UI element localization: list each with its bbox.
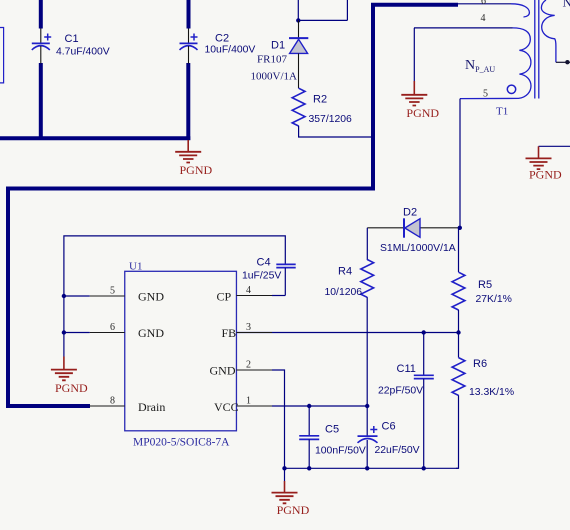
- wire: D1 cathode lead: [298, 20, 300, 39]
- wire: VCC line pin1 to C6: [272, 405, 367, 407]
- pin 4 CP: [236, 295, 272, 297]
- capacitor C5: [299, 406, 366, 468]
- svg-text:22pF/50V: 22pF/50V: [378, 386, 423, 397]
- wire: R6 bottom to gnd rail: [456, 395, 459, 468]
- ground PGND (transformer pin 4): [401, 28, 439, 120]
- svg-text:13.3K/1%: 13.3K/1%: [469, 387, 514, 398]
- svg-text:10/1206: 10/1206: [325, 287, 363, 298]
- svg-text:GND: GND: [138, 290, 164, 304]
- pin 3 FB: [236, 332, 272, 334]
- junction (FB/C11): [422, 330, 426, 334]
- svg-text:4: 4: [246, 285, 251, 296]
- transformer T1: [414, 0, 570, 118]
- wire: R2 bottom to drain bus: [299, 126, 372, 137]
- ground PGND (right, secondary side): [526, 146, 570, 181]
- wire: pin 5 to D2 node: [459, 99, 461, 228]
- pin 5 GND: [90, 295, 125, 297]
- wire thick: bottom rail of bulk caps: [0, 136, 190, 140]
- svg-text:8: 8: [110, 396, 115, 407]
- svg-text:GND: GND: [210, 364, 236, 378]
- secondary winding (partial): [541, 0, 556, 62]
- aux winding N_P_AU: [460, 28, 531, 99]
- capacitor C4: [242, 257, 296, 296]
- wire: R4 bottom to VCC rail: [366, 297, 368, 406]
- svg-text:C1: C1: [65, 33, 79, 45]
- wire: FB net: [236, 332, 458, 334]
- svg-text:D1: D1: [271, 39, 285, 51]
- wire: D1 top net to drain bus: [298, 0, 347, 20]
- wire: pin 6 stub: [458, 3, 511, 5]
- junction (pin6/left vertical): [62, 330, 66, 334]
- svg-text:GND: GND: [138, 326, 164, 340]
- junction (D2 anode / pin5 / R5): [458, 226, 462, 230]
- svg-text:C2: C2: [215, 33, 229, 45]
- svg-text:27K/1%: 27K/1%: [476, 294, 512, 305]
- wire: pin2 GND down to rail: [272, 370, 285, 468]
- resistor R2: [292, 88, 352, 126]
- svg-text:4.7uF/400V: 4.7uF/400V: [56, 46, 110, 57]
- svg-text:R6: R6: [473, 358, 487, 370]
- pin 6 GND: [90, 332, 125, 334]
- svg-text:PGND: PGND: [277, 503, 310, 517]
- svg-text:Drain: Drain: [138, 400, 165, 414]
- svg-text:C11: C11: [397, 363, 416, 375]
- svg-text:R4: R4: [338, 266, 352, 278]
- junction (rail/C11): [422, 466, 426, 470]
- svg-text:PGND: PGND: [180, 163, 213, 177]
- svg-text:T1: T1: [496, 106, 508, 118]
- svg-text:6: 6: [481, 0, 486, 7]
- junction (VCC/C5): [307, 404, 311, 408]
- wire: D2 horizontal: [367, 227, 460, 229]
- resistor R6: [452, 333, 514, 398]
- svg-text:1uF/25V: 1uF/25V: [242, 271, 281, 282]
- svg-text:5: 5: [483, 89, 488, 100]
- junction (VCC/C6/R4): [365, 404, 369, 408]
- svg-text:VCC: VCC: [214, 400, 239, 414]
- IC U1: [90, 261, 272, 449]
- svg-text:C6: C6: [382, 421, 396, 433]
- pin 1 VCC: [236, 405, 272, 407]
- svg-text:100nF/50V: 100nF/50V: [315, 446, 366, 457]
- svg-text:R2: R2: [313, 94, 327, 106]
- pin 2 GND: [236, 369, 272, 371]
- junction (D1 top): [296, 18, 300, 22]
- diode D2: [380, 207, 456, 255]
- winding entry pin 6 (partial): [511, 4, 529, 17]
- svg-text:10uF/400V: 10uF/400V: [205, 45, 256, 56]
- svg-text:U1: U1: [129, 261, 142, 273]
- svg-text:C5: C5: [325, 423, 339, 435]
- svg-text:PGND: PGND: [406, 106, 439, 120]
- svg-text:C4: C4: [257, 257, 271, 269]
- wire thick: C2 bottom lead: [186, 63, 190, 140]
- wire thick: drain bus to transformer pin 6: [8, 5, 458, 406]
- ground PGND (U1 GND pins): [51, 357, 88, 395]
- junction (rail/C6): [365, 466, 369, 470]
- svg-text:3: 3: [246, 322, 251, 333]
- wire: left GND vertical / top to C4: [64, 236, 285, 357]
- wire thick: C2 top stub: [187, 0, 191, 29]
- svg-text:R5: R5: [478, 279, 492, 291]
- svg-text:22uF/50V: 22uF/50V: [375, 445, 420, 456]
- capacitor C1: [32, 29, 110, 64]
- wire thick: C1 bottom lead to rail: [39, 63, 43, 140]
- junction (rail/pin2/PGND): [282, 466, 286, 470]
- core: [535, 0, 539, 99]
- svg-text:5: 5: [110, 286, 115, 297]
- capacitor C6: [358, 406, 420, 468]
- junction (secondary, right edge): [565, 60, 569, 64]
- winding dot: [507, 85, 515, 93]
- pin 8 Drain: [90, 405, 125, 407]
- wire: D1 anode to R2: [298, 53, 300, 88]
- capacitor C11: [378, 333, 434, 469]
- svg-text:S1ML/1000V/1A: S1ML/1000V/1A: [380, 243, 456, 254]
- ground PGND (below bulk rail): [175, 140, 212, 177]
- svg-text:D2: D2: [403, 207, 417, 219]
- wire: secondary out to right edge: [556, 61, 570, 63]
- resistor R4: [325, 260, 374, 299]
- wire: pin4/CP to C4: [272, 295, 285, 297]
- svg-text:1: 1: [246, 396, 251, 407]
- svg-text:4: 4: [481, 13, 486, 24]
- svg-text:MP020-5/SOIC8-7A: MP020-5/SOIC8-7A: [133, 437, 230, 449]
- junction (FB/R5/R6): [456, 330, 460, 334]
- wire: pin 4: [414, 27, 513, 29]
- wire: GND pins to left vertical: [64, 296, 90, 333]
- junction (pin5/left vertical): [62, 294, 66, 298]
- svg-text:N: N: [563, 0, 570, 10]
- capacitor C2: [180, 29, 256, 64]
- svg-text:2: 2: [246, 360, 251, 371]
- svg-text:PGND: PGND: [529, 168, 562, 182]
- svg-text:FB: FB: [222, 326, 237, 340]
- resistor R5: [452, 228, 512, 310]
- diode D1: [251, 38, 309, 83]
- svg-text:PGND: PGND: [55, 381, 88, 395]
- junction (rail/C5): [307, 466, 311, 470]
- svg-text:CP: CP: [217, 290, 232, 304]
- ground PGND (bottom): [272, 468, 310, 517]
- svg-text:357/1206: 357/1206: [309, 114, 353, 125]
- wire: ground rail: [285, 467, 459, 469]
- svg-text:1000V/1A: 1000V/1A: [251, 71, 298, 83]
- wire: D2 cathode to R4: [366, 228, 368, 260]
- wire thick: C1 top stub: [39, 0, 43, 29]
- wire: R5 bottom to FB: [458, 310, 460, 333]
- bridge box partial (left edge): [0, 28, 4, 83]
- svg-text:FR107: FR107: [257, 54, 287, 66]
- svg-text:6: 6: [110, 322, 115, 333]
